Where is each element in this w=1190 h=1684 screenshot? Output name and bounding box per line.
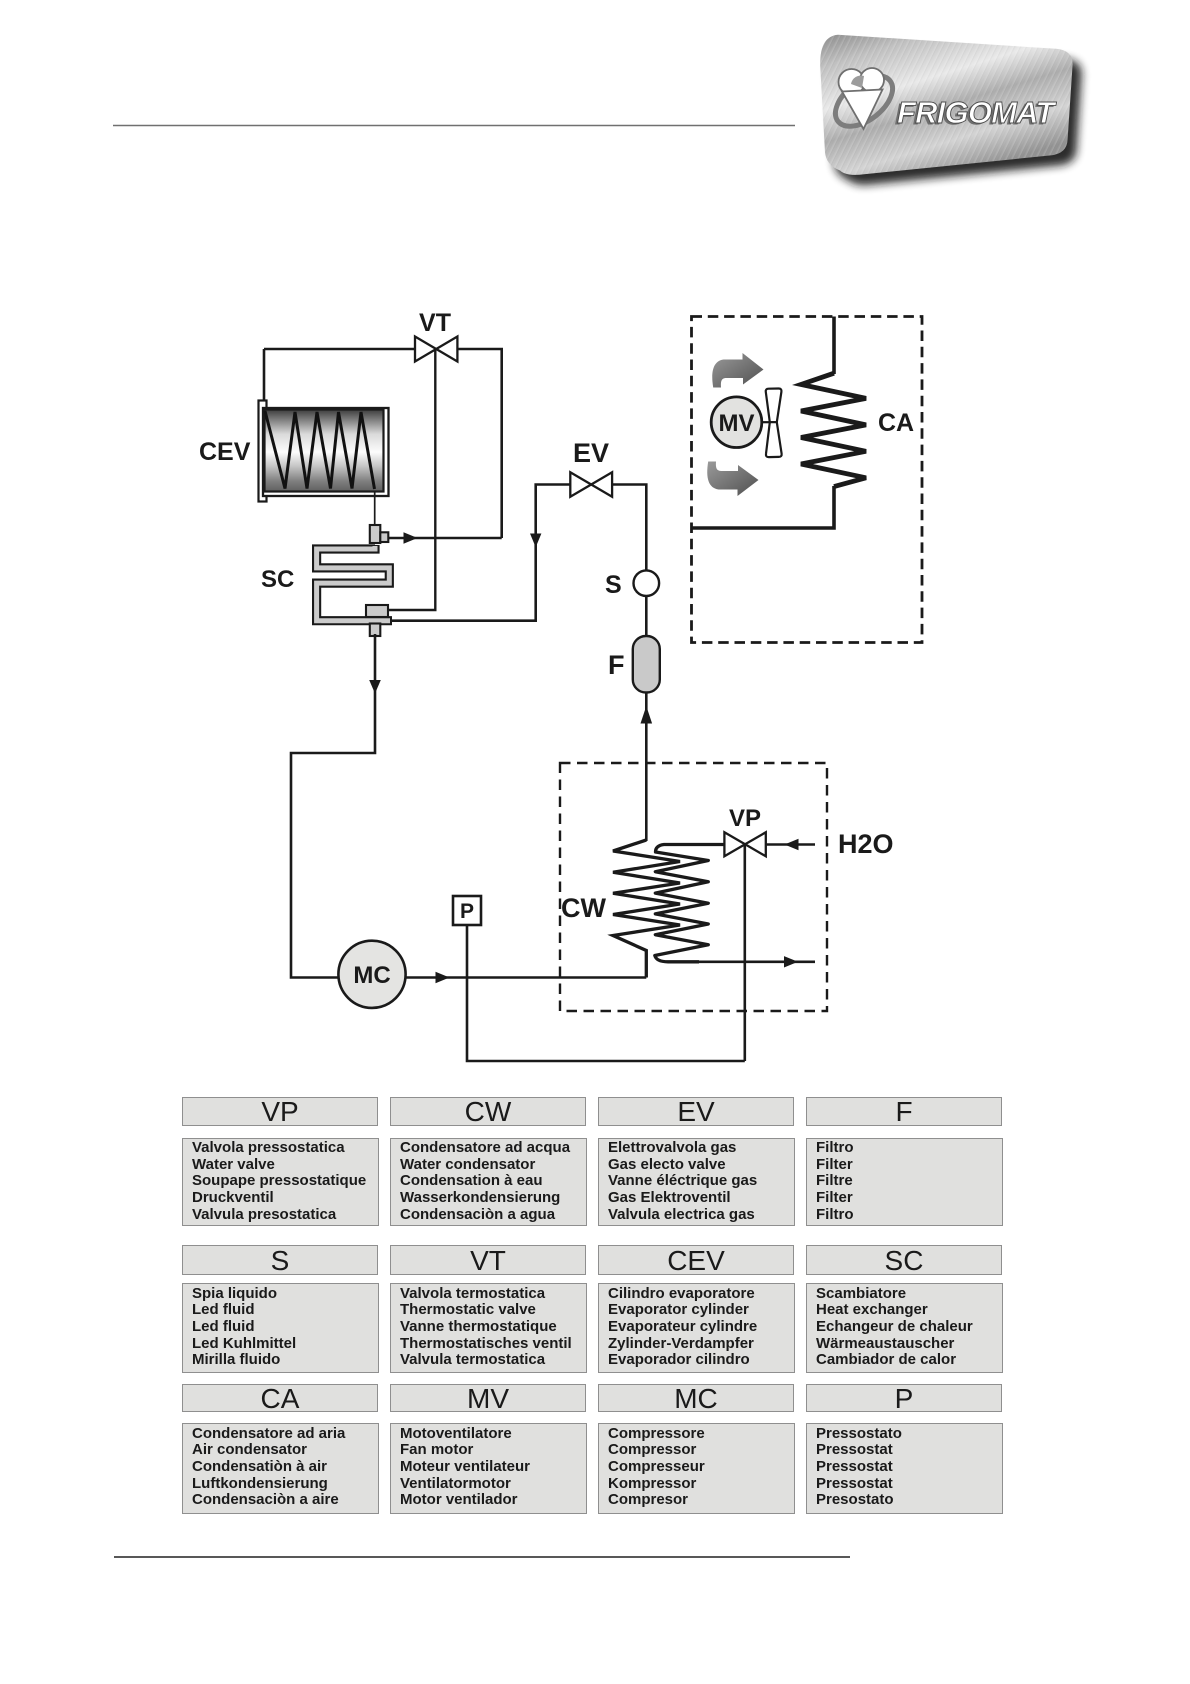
wire CEV outlet down to SC [374,491,376,526]
legend header EV [598,1097,794,1126]
arrow left on H2O wire [785,839,799,850]
condenser CA dashed box [692,317,923,643]
FRIGOMAT logo plate shadow [829,45,1081,185]
arrow down below SC [369,680,381,694]
legend body MV [390,1423,587,1514]
legend header VT [390,1245,586,1275]
legend body EV [598,1138,795,1227]
condenser CA coil [801,373,866,486]
wire S to F [645,596,648,637]
legend header MV [390,1384,586,1412]
svg-text:FRIGOMAT: FRIGOMAT [897,95,1057,130]
CW coil zigzag B water [655,845,725,962]
wire EV right to S [612,485,646,571]
wire P control line [467,925,745,1061]
wire F down into CW coil [645,693,648,842]
evaporator CEV flange [259,401,267,502]
svg-text:SC: SC [261,566,294,593]
arrow down on EV riser [530,534,541,548]
fan blade top [766,389,782,423]
wire CW water outlet [699,960,815,963]
svg-text:MC: MC [353,962,390,989]
arrow up below F [641,706,653,724]
svg-text:VP: VP [729,805,761,832]
legend header S [182,1245,378,1275]
legend header CW [390,1097,586,1126]
air flow arrow top [712,353,763,388]
condenser CW dashed box [560,763,827,1011]
arrow right on SC top line [404,532,418,543]
legend body MC [598,1423,795,1514]
svg-text:VT: VT [419,309,451,337]
svg-text:CEV: CEV [199,438,251,466]
air flow arrow bottom [707,462,758,497]
svg-text:P: P [460,900,474,923]
legend body P [806,1423,1003,1514]
wire VT right to riser down to SC arrow line [457,349,502,538]
wire suction loop from SC [291,634,375,978]
legend header F [806,1097,1002,1126]
capillary VT to SC fitting [389,349,435,610]
pressure switch P box [453,896,481,925]
legend header VP [182,1097,378,1126]
legend header P [806,1384,1002,1412]
svg-text:EV: EV [573,438,609,468]
wire VT left horizontal [264,348,415,351]
fan motor MV circle [711,397,762,448]
legend body F [806,1138,1003,1227]
legend body CW [390,1138,587,1227]
filter F [633,636,660,693]
legend body S [182,1283,379,1373]
evaporator CEV outer shell [263,408,389,496]
fan blade bottom [766,422,782,457]
arrow right on outlet [784,956,798,967]
legend body CEV [598,1283,795,1373]
legend body VP [182,1138,379,1227]
sight glass S [634,570,660,596]
legend body CA [182,1423,379,1514]
fan stem [762,421,770,423]
svg-text:CA: CA [878,409,914,437]
CW coil zigzag A [613,840,680,978]
valve VP [724,832,765,856]
legend header CA [182,1384,378,1412]
SC bottom fitting [366,605,388,617]
legend body SC [806,1283,1003,1373]
legend header SC [806,1245,1002,1275]
wire SC fitting to VT riser [388,537,501,540]
wire left down into CEV [263,349,266,403]
legend header CEV [598,1245,794,1275]
CA feed wire top [832,317,836,375]
svg-text:F: F [608,650,625,680]
logo ice-cream cone [839,68,885,129]
wire VP stem down [743,844,746,1061]
svg-text:H2O: H2O [838,829,894,859]
legend body VT [390,1283,587,1373]
valve VT [415,337,457,362]
SC top fitting [370,525,381,543]
valve EV [570,472,612,496]
heat exchanger SC meander [317,545,392,621]
arrow right on MC discharge [436,972,450,983]
wire H2O inlet [766,843,815,846]
top rule [113,125,795,127]
CA outlet wire [692,486,835,528]
logo orbit ellipse [826,66,901,137]
svg-text:MV: MV [719,410,755,437]
wire MC discharge [405,976,646,979]
compressor MC [338,941,405,1008]
wire SC bottom to EV riser [392,485,570,621]
FRIGOMAT logo plate [820,35,1072,175]
bottom rule [114,1556,850,1558]
evaporator CEV body [265,410,384,492]
svg-text:CW: CW [561,893,606,923]
evaporator CEV coil zigzag [265,411,375,489]
legend header MC [598,1384,794,1412]
svg-text:S: S [605,571,622,599]
